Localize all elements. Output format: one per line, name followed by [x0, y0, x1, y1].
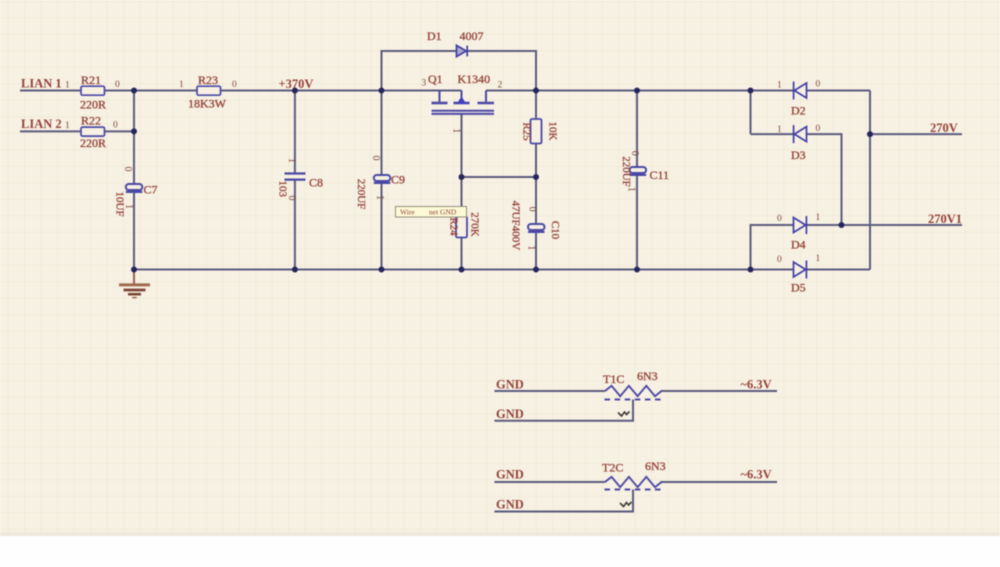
svg-text:D1: D1 — [427, 29, 442, 43]
resistor R22 — [81, 127, 105, 136]
svg-text:~6.3V: ~6.3V — [741, 468, 772, 482]
junction C11 top node — [634, 88, 640, 94]
T1C tap mark — [618, 412, 630, 417]
svg-text:Wire: Wire — [400, 208, 415, 217]
svg-text:18K3W: 18K3W — [188, 97, 227, 111]
svg-text:D4: D4 — [791, 238, 806, 252]
junction 270V node — [867, 131, 873, 137]
svg-text:R22: R22 — [81, 114, 101, 128]
svg-text:GND: GND — [496, 498, 524, 512]
svg-text:220R: 220R — [80, 98, 106, 112]
diode D3 — [794, 125, 807, 143]
svg-text:270V1: 270V1 — [928, 212, 962, 226]
resistor R23 — [197, 86, 221, 95]
svg-text:2: 2 — [498, 81, 503, 91]
wire bottom ground rail — [134, 269, 793, 271]
wire gate node to node C — [462, 176, 537, 178]
svg-text:K1340: K1340 — [458, 72, 491, 86]
svg-text:Q1: Q1 — [428, 72, 443, 86]
wire D4 branch from bottom rail — [751, 225, 794, 270]
junction D2 branch node — [748, 88, 754, 94]
wire T1C output to ~6.3V — [661, 390, 778, 392]
wire D1 loop right — [467, 51, 536, 91]
svg-text:LIAN 2: LIAN 2 — [21, 117, 62, 131]
svg-text:0: 0 — [113, 121, 118, 131]
svg-text:1: 1 — [451, 128, 462, 133]
svg-text:1: 1 — [526, 245, 537, 250]
wire bottom rail right of D5 — [807, 269, 871, 271]
transformer T1C coil — [605, 386, 662, 396]
diode D2 — [794, 82, 807, 100]
svg-text:0: 0 — [122, 167, 133, 172]
junction ground rail at C11 — [634, 267, 640, 273]
wire 270V1 net — [842, 224, 963, 226]
transformer T2C coil — [605, 477, 662, 487]
svg-text:1: 1 — [123, 204, 134, 209]
svg-text:1: 1 — [777, 81, 782, 91]
wire R24 to bottom rail — [461, 238, 463, 270]
wire LIAN1 input to R21 — [20, 90, 81, 92]
wire Q1 gate down — [461, 114, 463, 217]
wire right vertical bus — [869, 91, 871, 270]
svg-text:GND: GND — [496, 378, 524, 392]
diode D1 — [457, 45, 468, 56]
junction +370V node — [292, 88, 298, 94]
wire T2C GND upper — [494, 481, 605, 483]
wire C11 to bottom rail — [636, 176, 638, 270]
wire top rail down to C9 — [381, 91, 383, 176]
svg-text:LIAN 1: LIAN 1 — [21, 77, 62, 91]
svg-text:1: 1 — [65, 81, 70, 91]
svg-text:0: 0 — [370, 156, 381, 161]
wire R22 to node B — [105, 130, 135, 132]
svg-text:3: 3 — [422, 79, 427, 89]
svg-text:0: 0 — [115, 80, 120, 90]
svg-text:0: 0 — [816, 124, 821, 134]
wire R25 to node C — [535, 144, 537, 225]
svg-text:R23: R23 — [198, 73, 218, 87]
svg-text:T2C: T2C — [602, 461, 623, 475]
junction ground rail at D4 branch — [748, 267, 754, 273]
junction R25/C10 node — [533, 174, 539, 180]
T2C tap mark — [620, 502, 632, 507]
svg-text:R24: R24 — [448, 217, 460, 236]
wire C9 to bottom rail — [381, 184, 383, 270]
svg-text:+370V: +370V — [279, 77, 314, 91]
junction 270V1 node — [839, 222, 845, 228]
capacitor C10 — [528, 224, 545, 232]
transformer T2C core dashes — [605, 489, 663, 491]
svg-text:1: 1 — [777, 125, 782, 135]
svg-text:net GND: net GND — [429, 208, 457, 217]
svg-text:D2: D2 — [791, 104, 806, 118]
junction D1-left/C9 node — [379, 88, 385, 94]
wire D2 right to corner — [807, 90, 871, 92]
resistor R24 — [456, 217, 467, 238]
svg-text:1: 1 — [374, 195, 385, 200]
svg-text:D3: D3 — [791, 148, 806, 162]
svg-text:1: 1 — [816, 254, 821, 264]
svg-text:C7: C7 — [144, 183, 158, 197]
junction ground rail at C9 — [379, 267, 385, 273]
svg-text:220UF: 220UF — [355, 179, 367, 210]
junction gate node — [459, 174, 465, 180]
transistor Q1 K1340 — [432, 91, 495, 114]
svg-text:270K: 270K — [469, 212, 481, 237]
junction node B (R22/column) — [131, 128, 137, 134]
svg-text:GND: GND — [496, 468, 524, 482]
svg-text:270V: 270V — [930, 121, 958, 135]
svg-text:0: 0 — [286, 196, 297, 201]
svg-text:1: 1 — [625, 187, 636, 192]
wire R23 to Q1 source (top rail left) — [220, 90, 462, 92]
wire C7 to ground rail — [133, 193, 135, 270]
svg-text:0: 0 — [816, 80, 821, 90]
svg-text:0: 0 — [777, 255, 782, 265]
svg-text:GND: GND — [496, 407, 524, 421]
svg-text:220R: 220R — [80, 136, 106, 150]
tooltip Wire net GND — [396, 207, 467, 218]
svg-text:4007: 4007 — [460, 29, 484, 43]
wire R21 to R23 through node A — [105, 90, 198, 92]
svg-text:1: 1 — [816, 213, 821, 223]
svg-text:C11: C11 — [650, 168, 670, 182]
diode D4 — [794, 216, 807, 234]
junction ground rail at R24 — [459, 267, 465, 273]
wire LIAN2 input to R22 — [20, 130, 81, 132]
wire rail to R25 — [535, 91, 537, 121]
wire top rail to D3 branch — [750, 91, 752, 135]
wire D1 loop left — [382, 51, 457, 91]
resistor R21 — [81, 86, 105, 95]
ground — [119, 270, 150, 298]
wire T2C GND lower to center tap — [494, 490, 633, 512]
wire +370V node down to C8 — [294, 91, 296, 174]
diode D5 — [794, 261, 807, 279]
svg-text:T1C: T1C — [603, 372, 624, 386]
wire D3 right corner down — [807, 134, 842, 225]
junction ground rail at C8 — [292, 267, 298, 273]
capacitor C7 — [126, 184, 143, 192]
svg-text:6N3: 6N3 — [645, 459, 666, 473]
svg-text:0: 0 — [629, 151, 640, 156]
svg-text:C8: C8 — [309, 176, 323, 190]
svg-text:220UF: 220UF — [620, 156, 632, 187]
svg-text:10K: 10K — [547, 122, 559, 141]
svg-text:C9: C9 — [391, 173, 405, 187]
junction D1-right/R25 node — [533, 88, 539, 94]
wire node A down to C7 — [133, 91, 135, 184]
svg-text:6N3: 6N3 — [637, 369, 658, 383]
wire 270V net — [870, 133, 962, 135]
resistor R25 — [531, 119, 542, 144]
wire D4 right to node — [807, 224, 842, 226]
wire C8 to bottom rail — [294, 180, 296, 270]
wire T1C GND lower to center tap — [494, 400, 633, 421]
svg-text:C10: C10 — [549, 221, 561, 240]
wire T2C output to ~6.3V — [661, 481, 778, 483]
transformer T1C core dashes — [605, 399, 663, 401]
wire T1C GND upper — [494, 390, 605, 392]
svg-text:D5: D5 — [791, 281, 806, 295]
svg-text:0: 0 — [527, 207, 538, 212]
svg-text:R25: R25 — [521, 122, 533, 141]
wire D3 line left — [751, 133, 794, 135]
capacitor C11 — [630, 167, 647, 175]
junction node A (R21/R23/column) — [131, 88, 137, 94]
svg-text:1: 1 — [179, 80, 184, 90]
svg-text:0: 0 — [232, 80, 237, 90]
wire rail down to C11 — [636, 91, 638, 168]
svg-text:1: 1 — [65, 121, 70, 131]
wire C10 to bottom rail — [535, 233, 537, 270]
capacitor C9 — [374, 175, 391, 183]
svg-text:47UF400V: 47UF400V — [510, 201, 522, 251]
svg-text:R21: R21 — [81, 73, 101, 87]
svg-text:0: 0 — [777, 214, 782, 224]
wire Q1 drain to D2 (top rail right) — [486, 90, 793, 92]
junction ground rail at C7 — [131, 267, 137, 273]
svg-text:1: 1 — [286, 158, 297, 163]
capacitor C8 — [285, 174, 306, 180]
svg-text:~6.3V: ~6.3V — [741, 378, 772, 392]
junction ground rail at C10 — [533, 267, 539, 273]
